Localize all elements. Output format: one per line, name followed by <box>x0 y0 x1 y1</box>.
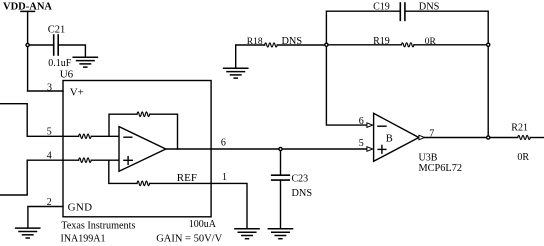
svg-text:R21: R21 <box>511 122 528 133</box>
svg-text:0R: 0R <box>517 152 529 163</box>
svg-text:100uA: 100uA <box>189 219 217 230</box>
svg-text:6: 6 <box>359 116 364 127</box>
svg-text:2: 2 <box>47 197 52 208</box>
capacitor C19 branch <box>326 3 488 45</box>
power flag VDD-ANA <box>21 11 35 91</box>
svg-text:R18: R18 <box>247 37 263 47</box>
wire op-amp output to pin 6 <box>166 148 211 150</box>
svg-text:DNS: DNS <box>282 36 303 47</box>
wire left input to pin 4 <box>0 160 63 195</box>
resistor R21 <box>518 136 544 140</box>
svg-text:U6: U6 <box>60 68 74 80</box>
svg-text:1: 1 <box>222 172 227 183</box>
resistor R18 <box>236 43 327 68</box>
svg-text:Texas Instruments: Texas Instruments <box>61 220 135 231</box>
junction R18/R19/C19 left <box>325 43 328 46</box>
svg-text:C23: C23 <box>292 173 309 184</box>
svg-text:0R: 0R <box>425 37 437 47</box>
ground (pin 2) <box>16 228 40 238</box>
ground (C21) <box>73 57 97 67</box>
wire pin 2 to ground <box>28 207 63 229</box>
ground (REF) <box>235 229 259 239</box>
svg-text:VDD-ANA: VDD-ANA <box>3 2 52 13</box>
wire R19/C19 right down to output <box>487 45 489 138</box>
svg-text:DNS: DNS <box>292 188 313 199</box>
U6 box <box>63 81 211 217</box>
pin arrow U3B pin 7 <box>419 135 425 140</box>
svg-text:C21: C21 <box>48 25 66 36</box>
REF loop with resistor (bottom, U6 internal) <box>109 160 211 186</box>
ground (C23) <box>268 229 292 239</box>
svg-text:GND: GND <box>68 202 93 214</box>
resistor R19 <box>326 43 488 47</box>
svg-text:5: 5 <box>359 138 364 149</box>
svg-text:GAIN = 50V/V: GAIN = 50V/V <box>156 234 222 245</box>
svg-text:5: 5 <box>47 127 52 138</box>
svg-text:V+: V+ <box>70 87 84 99</box>
capacitor C21 <box>54 35 59 55</box>
op-amp U6 internal <box>119 127 166 172</box>
op-amp U3B <box>374 113 419 161</box>
svg-text:DNS: DNS <box>419 2 440 13</box>
internal input resistor (pin 4) <box>63 158 119 162</box>
wire pin 6 to U3B pin 5 <box>211 148 367 150</box>
wire VDD to C21 <box>28 44 53 46</box>
pin arrow U3B pin 6 <box>367 123 373 128</box>
wire C21 to ground <box>59 45 86 57</box>
svg-text:6: 6 <box>221 138 226 149</box>
wire pin 3 <box>28 90 63 92</box>
ground (R18) <box>224 68 248 78</box>
pin arrow U3B pin 5 <box>367 147 373 152</box>
svg-text:C19: C19 <box>373 2 390 13</box>
capacitor C23 <box>272 149 290 229</box>
svg-text:B: B <box>386 134 393 145</box>
svg-text:INA199A1: INA199A1 <box>61 234 106 245</box>
internal input resistor (pin 5) <box>63 134 119 138</box>
feedback loop with resistor (top, U6 internal) <box>109 112 178 149</box>
junction on VDD net <box>26 43 29 46</box>
wire U3B output <box>425 137 518 139</box>
junction pin6 net / C23 <box>279 147 282 150</box>
junction R19/C19 right <box>487 43 490 46</box>
svg-text:4: 4 <box>47 151 52 162</box>
svg-text:MCP6L72: MCP6L72 <box>419 163 463 174</box>
svg-text:3: 3 <box>47 83 52 94</box>
svg-text:REF: REF <box>177 172 197 184</box>
svg-text:0.1uF: 0.1uF <box>48 58 72 69</box>
svg-text:U3B: U3B <box>419 152 438 163</box>
junction output/feedback <box>487 136 490 139</box>
wire feedback down to U3B pin 6 <box>326 45 367 125</box>
svg-text:R19: R19 <box>373 36 390 47</box>
wire left input to pin 5 <box>0 104 63 137</box>
wire pin 1 REF to ground <box>211 183 247 228</box>
